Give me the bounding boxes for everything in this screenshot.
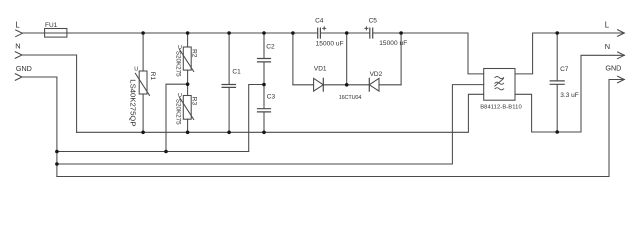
wire GND input down left bus spine bbox=[22, 77, 57, 177]
svg-text:U: U bbox=[178, 93, 182, 99]
junction C3 bottom bbox=[262, 131, 266, 135]
diode VD1 (anode left) bbox=[314, 78, 324, 91]
wire N input down to bottom rail bbox=[22, 55, 77, 132]
svg-text:U: U bbox=[134, 66, 138, 72]
junction bridge mid top bbox=[345, 31, 349, 35]
svg-text:GND: GND bbox=[605, 64, 621, 73]
junction R1 top bbox=[141, 31, 145, 35]
wire R3 lower bbox=[187, 119, 189, 132]
wire C2-C3 mid bbox=[263, 62, 265, 108]
wire diode row left to VD1 bbox=[293, 84, 314, 86]
wire mid node to VD2 bbox=[347, 84, 370, 86]
wire gnd bus3 to output GND bbox=[57, 80, 624, 177]
varistor R3 body bbox=[180, 96, 194, 120]
wire L input to C4 (top rail left) bbox=[22, 32, 317, 34]
junction C2C3 midpoint bbox=[262, 83, 266, 87]
svg-text:N: N bbox=[605, 42, 610, 51]
svg-text:R3: R3 bbox=[190, 97, 197, 106]
diode VD2 (anode right) bbox=[369, 78, 379, 91]
wire VD2 to bridge right vertical bbox=[379, 84, 401, 86]
wire C3 lower bbox=[263, 112, 265, 132]
wire bridge mid vertical bbox=[346, 33, 348, 85]
svg-text:VD2: VD2 bbox=[370, 71, 383, 78]
connector X1 input L (chevron) bbox=[16, 30, 23, 37]
varistor R2 body bbox=[180, 47, 194, 72]
capacitor C4 plus mark bbox=[323, 27, 326, 30]
wire gnd bus2 to filter pin2 bbox=[57, 85, 484, 164]
connector X3 input GND (chevron) bbox=[15, 74, 22, 81]
wire R2R3 midpoint tap to gnd bus1 bbox=[166, 84, 188, 151]
svg-text:R1: R1 bbox=[149, 72, 156, 81]
capacitor C2 plates bbox=[258, 59, 271, 62]
wire C2 branch upper bbox=[263, 33, 265, 58]
svg-text:VD1: VD1 bbox=[314, 65, 327, 72]
wire R2 branch upper bbox=[187, 33, 189, 47]
svg-text:C4: C4 bbox=[315, 18, 324, 25]
wire filter lower-right pin to output rail and N output bbox=[515, 55, 624, 132]
EMI filter U1 box B84112-B-B110 bbox=[484, 69, 515, 101]
wire R1 branch lower bbox=[142, 94, 144, 132]
junction C7 bottom bbox=[555, 130, 559, 134]
junction C7 top bbox=[555, 31, 559, 35]
junction C2 top bbox=[262, 31, 266, 35]
svg-text:16CTU04: 16CTU04 bbox=[339, 95, 362, 101]
wire VD1 to mid node bbox=[323, 84, 346, 86]
capacitor C1 plates bbox=[222, 85, 235, 88]
junction R2 top bbox=[186, 31, 190, 35]
junction R2R3 midpoint bbox=[186, 82, 190, 86]
fuse FU1 body bbox=[45, 29, 67, 38]
svg-text:R2: R2 bbox=[190, 49, 197, 58]
capacitor C5 plus mark bbox=[365, 27, 368, 30]
svg-text:LS40K275QP: LS40K275QP bbox=[129, 79, 138, 126]
junction R2R3 tap on bus1 bbox=[164, 150, 168, 154]
wire C2C3 midpoint tap to gnd bus1 bbox=[249, 85, 264, 152]
wire bottom rail N to filter pin3 bbox=[77, 94, 484, 132]
wire C1 branch upper bbox=[228, 33, 230, 84]
svg-text:15000 uF: 15000 uF bbox=[379, 40, 407, 47]
connector X2 input N (chevron) bbox=[15, 52, 22, 59]
wire R2-R3 mid bbox=[187, 70, 189, 95]
wire C1 branch lower bbox=[228, 88, 230, 133]
svg-text:C2: C2 bbox=[266, 44, 275, 51]
capacitor C7 plates bbox=[550, 81, 564, 84]
svg-text:FU1: FU1 bbox=[45, 22, 58, 29]
wire gnd bus1 bbox=[57, 151, 249, 153]
svg-text:S20K275: S20K275 bbox=[174, 51, 181, 77]
junction R1 bottom bbox=[141, 131, 145, 135]
junction bridge right top bbox=[399, 31, 403, 35]
wire bridge left vertical bbox=[292, 33, 294, 85]
wire filter upper-right pin to output rail L bbox=[515, 33, 624, 74]
svg-text:C5: C5 bbox=[369, 18, 378, 25]
junction gnd bus2 left bbox=[55, 162, 59, 166]
svg-text:C3: C3 bbox=[267, 93, 276, 100]
capacitor C3 plates bbox=[258, 109, 271, 112]
wire C7 branch lower bbox=[556, 85, 558, 132]
svg-text:S20K275: S20K275 bbox=[174, 99, 181, 125]
wire C5 to filter pin1 (top rail right, down at x=468) bbox=[373, 33, 484, 74]
capacitor C4 plates (polarized) bbox=[318, 28, 321, 38]
svg-text:C7: C7 bbox=[560, 66, 569, 73]
svg-text:15000 uF: 15000 uF bbox=[316, 40, 344, 47]
svg-text:C1: C1 bbox=[232, 69, 241, 76]
junction gnd bus1 left bbox=[55, 150, 59, 154]
connector X6 output N (chevron) bbox=[618, 52, 625, 59]
svg-text:3.3 uF: 3.3 uF bbox=[560, 92, 578, 99]
junction diode row mid bbox=[345, 83, 349, 87]
wire bridge right vertical bbox=[400, 33, 402, 85]
wire C4 to C5 (top rail mid) bbox=[321, 32, 369, 34]
capacitor C5 plates (polarized) bbox=[370, 28, 373, 38]
svg-text:GND: GND bbox=[16, 64, 32, 73]
junction C1 top bbox=[227, 31, 231, 35]
connector X5 output L (chevron) bbox=[618, 30, 625, 37]
connector X4 output GND (chevron) bbox=[618, 76, 625, 83]
wire R1 branch upper bbox=[142, 33, 144, 71]
wire C7 branch upper bbox=[556, 33, 558, 80]
varistor R1 body bbox=[135, 71, 149, 95]
svg-text:L: L bbox=[605, 21, 610, 30]
svg-text:B84112-B-B110: B84112-B-B110 bbox=[480, 104, 522, 110]
junction R3 bottom bbox=[186, 131, 190, 135]
junction C1 bottom bbox=[227, 131, 231, 135]
junction bridge left top bbox=[291, 31, 295, 35]
svg-text:N: N bbox=[15, 42, 20, 51]
svg-text:L: L bbox=[15, 20, 20, 29]
svg-text:U: U bbox=[178, 45, 182, 51]
